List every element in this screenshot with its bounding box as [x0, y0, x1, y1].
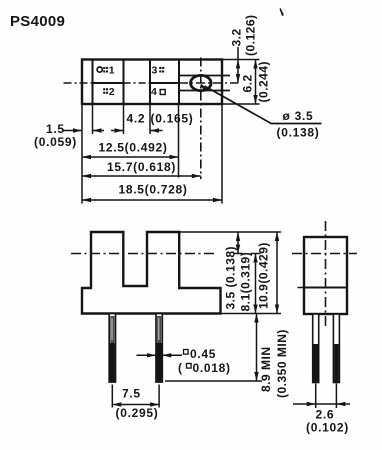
svg-text:3: 3: [152, 65, 158, 77]
dim 4.2 left arrow: [111, 130, 124, 132]
dim 4.2 right arrow: [150, 130, 163, 132]
side pin 2: [333, 314, 339, 383]
dim 8.9 MIN line: [256, 314, 258, 382]
horizontal centerline left of body: [64, 82, 93, 84]
hole chamber upper ledge: [179, 75, 230, 77]
window1 row divider: [93, 82, 124, 84]
dim 8.1 line: [255, 254, 257, 314]
dim 1.5 left arrow: [64, 130, 83, 132]
extension line 4.2 right: [149, 104, 151, 134]
svg-text:2.6: 2.6: [316, 408, 335, 422]
centerline tick at 3.5: [233, 253, 243, 255]
svg-text:0.018): 0.018): [193, 361, 231, 375]
dim 7.5 line: [112, 404, 159, 406]
front pin 2: [156, 314, 162, 383]
extension line right edge down: [221, 104, 223, 204]
dim 0.45 left arrow: [137, 354, 157, 356]
extension line left edge down: [81, 104, 83, 204]
hole chamber lower ledge: [179, 90, 230, 92]
svg-text:ø 3.5: ø 3.5: [283, 109, 314, 123]
svg-text:(0.295): (0.295): [116, 406, 159, 420]
dim 15.7 line: [82, 175, 201, 177]
pin1 marker circle: [97, 67, 102, 72]
svg-text:PS4009: PS4009: [10, 13, 65, 30]
svg-text:8.9 MIN: 8.9 MIN: [259, 346, 273, 392]
centerline tick at 8.1: [251, 253, 261, 255]
dim 3.2 arrow up: [236, 60, 240, 69]
svg-text:6.2: 6.2: [241, 74, 255, 92]
extension line 1.5: [92, 104, 94, 134]
svg-text:2: 2: [109, 86, 115, 98]
svg-text:1: 1: [109, 65, 115, 77]
svg-text:(0.350 MIN): (0.350 MIN): [275, 329, 289, 398]
window2 row divider: [150, 82, 179, 84]
svg-text:10.9(0.429): 10.9(0.429): [257, 242, 271, 309]
side view horizontal centerline: [292, 253, 357, 255]
svg-text:(: (: [178, 361, 183, 375]
side view body: [304, 237, 347, 314]
svg-text:4: 4: [151, 86, 157, 98]
extension line 12.5 right: [178, 104, 180, 178]
dim 3.2 arrow down: [236, 74, 240, 83]
dim 0.45 square symbol: [184, 350, 189, 355]
dim 6.2 line: [255, 60, 257, 105]
bottom edge extended right: [222, 103, 260, 105]
svg-text:3.5 (0.138): 3.5 (0.138): [224, 246, 238, 310]
svg-text:(0.244): (0.244): [257, 61, 271, 103]
top view body outline: [82, 60, 222, 105]
side view shoulder line: [304, 287, 347, 289]
svg-text:7.5: 7.5: [122, 387, 141, 401]
side view shoulder ext left: [298, 287, 305, 289]
svg-text:(0.102): (0.102): [306, 421, 349, 435]
svg-text:0.45: 0.45: [190, 347, 216, 361]
pin4 square mark: [160, 90, 165, 95]
svg-text:4.2: 4.2: [127, 112, 146, 126]
dim 3.5 line: [237, 232, 239, 254]
svg-text:(0.165): (0.165): [151, 112, 194, 126]
side pin 1: [313, 314, 319, 383]
side view vertical centerline: [325, 221, 327, 329]
hole leader line: [205, 86, 272, 124]
top view slot right wall: [149, 60, 151, 105]
extension line 4.2 left: [123, 104, 125, 134]
pin3 dots: [159, 67, 164, 73]
svg-text:(0.138): (0.138): [277, 126, 320, 140]
dim 7.5 extension lines: [111, 385, 113, 408]
pin end extension line: [165, 380, 262, 382]
svg-text:15.7(0.618): 15.7(0.618): [107, 160, 176, 174]
top view hole chamber left wall: [178, 60, 180, 105]
front view outline: [82, 232, 221, 314]
front view optical centerline: [71, 253, 215, 255]
dim 18.5 line: [82, 199, 222, 201]
dim 6.2 arrows: [253, 60, 257, 69]
front view top edge extension: [179, 231, 281, 233]
dim 3.2 extension: top edge extended right: [222, 59, 260, 61]
top view window1 right wall: [123, 60, 125, 105]
ink blob in hole: [200, 84, 208, 91]
pin2 dots: [103, 88, 108, 94]
hole vertical centerline: [200, 58, 202, 180]
pin1 polarity dots: [103, 67, 108, 73]
dim 2.6 extension lines: [315, 384, 317, 409]
dim 10.9 line: [276, 232, 278, 314]
svg-text:18.5(0.728): 18.5(0.728): [119, 183, 188, 197]
hole leader underline: [271, 123, 322, 125]
svg-text:(0.126): (0.126): [244, 14, 258, 56]
dim 3.2 line: [237, 47, 239, 83]
svg-text:12.5(0.492): 12.5(0.492): [99, 141, 168, 155]
svg-text:(0.059): (0.059): [34, 135, 77, 149]
base bottom extension: [221, 313, 282, 315]
front pin 1: [109, 314, 115, 383]
svg-text:8.1(0.319): 8.1(0.319): [239, 252, 253, 312]
svg-text:1.5: 1.5: [46, 122, 65, 136]
centerline through slot: [124, 82, 151, 84]
stray ink mark: [280, 8, 285, 16]
top view left strip line: [92, 60, 94, 105]
dim 0.45 right arrow: [162, 354, 182, 356]
centerline through hole chamber: [179, 82, 238, 84]
dim 12.5 line: [82, 156, 179, 158]
mounting hole circle: [191, 75, 212, 90]
svg-text:3.2: 3.2: [230, 28, 244, 46]
dim 1.5 right arrow: [93, 130, 105, 132]
dim 2.6 line: [293, 403, 350, 405]
